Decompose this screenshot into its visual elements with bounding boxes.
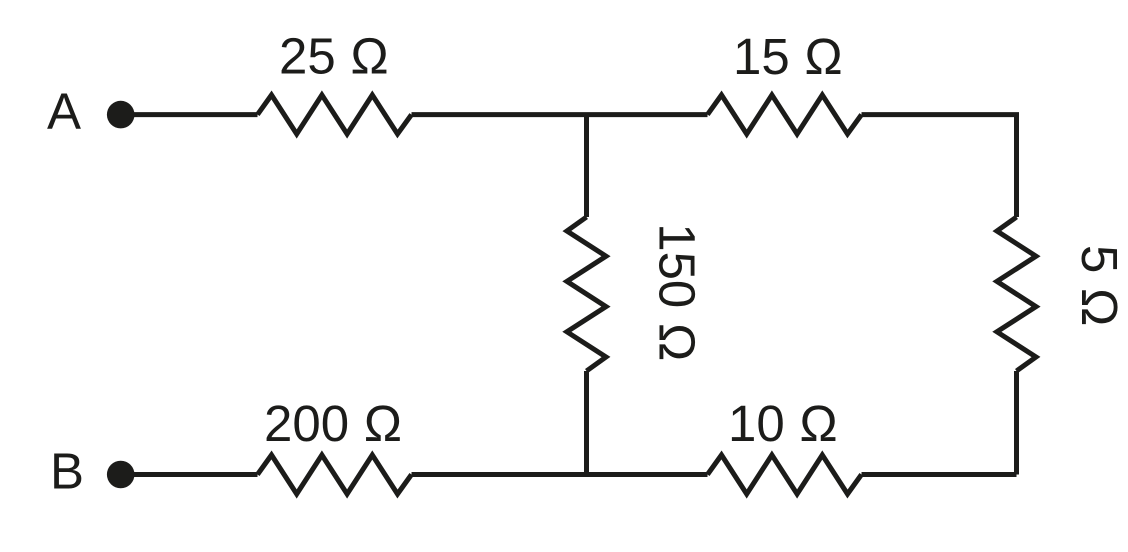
svg-text:10 Ω: 10 Ω: [728, 395, 838, 452]
wire: 200Ω to bottom junction node: [412, 472, 587, 477]
wire: 15Ω to top-right corner, down to resistor 5Ω: [862, 115, 1017, 217]
resistor R2 15Ω: [708, 95, 862, 134]
wire: 10Ω to bottom-right corner: [862, 472, 1017, 477]
svg-text:15 Ω: 15 Ω: [733, 28, 843, 85]
svg-text:200 Ω: 200 Ω: [264, 395, 402, 452]
wire: 25Ω to top junction node: [412, 112, 587, 117]
wire: 5Ω to bottom-right corner: [1014, 371, 1019, 475]
terminal A dot: [107, 101, 135, 129]
wire: terminal A to resistor 25Ω: [122, 112, 258, 117]
terminal B dot: [107, 461, 135, 489]
resistor R4 150Ω (vertical): [567, 217, 606, 371]
svg-text:5 Ω: 5 Ω: [1071, 245, 1128, 327]
wire: top junction to resistor 15Ω: [587, 112, 708, 117]
resistor R1 25Ω: [258, 95, 412, 134]
wire: 150Ω down to bottom junction node: [584, 371, 589, 475]
resistor R5 200Ω: [258, 455, 412, 494]
wire: top junction down to resistor 150Ω: [584, 115, 589, 217]
resistor R6 10Ω: [708, 455, 862, 494]
wire: terminal B to resistor 200Ω: [122, 472, 258, 477]
svg-text:B: B: [50, 443, 84, 500]
resistor R3 5Ω (vertical): [997, 217, 1036, 371]
svg-text:150 Ω: 150 Ω: [649, 223, 706, 361]
svg-text:A: A: [47, 83, 81, 140]
wire: bottom junction to resistor 10Ω: [587, 472, 708, 477]
svg-text:25 Ω: 25 Ω: [279, 27, 389, 84]
